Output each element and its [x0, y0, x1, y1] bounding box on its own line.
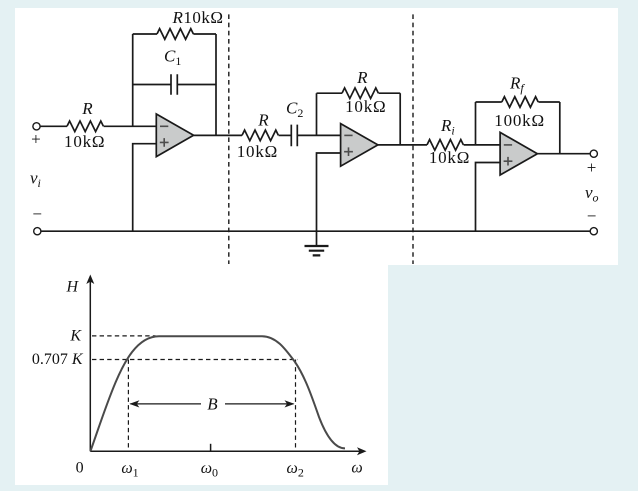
wire U3 feedback top left — [476, 101, 502, 103]
resistor Ri 10k — [427, 140, 463, 151]
wire Ri to op-amp U3 inverting input — [464, 144, 501, 146]
wire R to C2 — [279, 134, 292, 136]
capacitor C1 — [171, 74, 177, 94]
graph y-axis arrowhead — [86, 275, 94, 285]
svg-text:R10kΩ: R10kΩ — [172, 8, 224, 27]
wire U1 noninverting input — [133, 144, 157, 232]
ground — [305, 246, 329, 255]
node vi+ input terminal — [33, 123, 40, 130]
wire feedback top branch left — [133, 33, 157, 35]
op-amp U3 — [500, 132, 537, 175]
wire U3 feedback left vertical — [475, 102, 477, 145]
node vi- terminal — [34, 228, 41, 235]
graph dashed omega1 vertical — [127, 360, 129, 452]
node vo- terminal — [590, 228, 597, 235]
resistor R (input, 10k) — [67, 121, 103, 132]
svg-text:−: − — [587, 206, 597, 225]
graph: frequency response — [90, 280, 361, 451]
wire U3 output to vo terminal — [537, 153, 590, 155]
graph y-axis — [89, 280, 91, 451]
wire U2 noninverting input — [317, 153, 341, 246]
wire input terminal to R — [40, 125, 67, 127]
graph dashed omega2 vertical — [295, 360, 297, 452]
svg-text:10kΩ: 10kΩ — [64, 132, 105, 151]
svg-text:−: − — [32, 205, 42, 224]
wire feedback top branch right — [193, 33, 216, 35]
svg-text:0.707 K: 0.707 K — [32, 351, 84, 368]
wire C1 branch right — [177, 84, 216, 86]
svg-text:K: K — [69, 327, 82, 344]
svg-text:+: + — [31, 129, 41, 148]
graph response curve — [91, 336, 346, 451]
resistor Rf 100k (U3 feedback) — [502, 97, 538, 108]
wire U2 feedback top left — [317, 92, 343, 94]
bandwidth B arrow left — [130, 403, 201, 405]
stage separator dashed line 1 — [228, 14, 230, 264]
U1 plus pin mark — [160, 138, 169, 147]
wire U3 feedback top right — [538, 101, 559, 103]
svg-text:10kΩ: 10kΩ — [237, 142, 278, 161]
graph omega0 tick — [210, 444, 212, 452]
bandwidth B arrow right — [225, 403, 294, 405]
U3 minus pin mark — [504, 144, 512, 146]
svg-text:10kΩ: 10kΩ — [345, 97, 386, 116]
wire U1 feedback right vertical — [215, 34, 217, 135]
wire U3 feedback right vertical — [559, 102, 561, 154]
graph dashed level 0.707K — [92, 359, 298, 361]
wire C2 to op-amp U2 inverting input — [297, 134, 340, 136]
wire U1 output to stage 2 — [194, 134, 242, 136]
capacitor C2 — [291, 125, 297, 147]
svg-text:ω: ω — [351, 460, 362, 477]
graph x-axis — [90, 450, 361, 452]
wire bottom rail — [41, 230, 590, 232]
svg-text:H: H — [66, 279, 80, 296]
resistor R (stage 2 input, 10k) — [242, 130, 278, 141]
resistor R 10k (U1 feedback) — [157, 29, 193, 40]
svg-text:B: B — [207, 394, 218, 413]
wire U2 feedback right vertical — [399, 93, 401, 145]
wire U1 feedback left vertical — [132, 34, 134, 126]
wire R to op-amp U1 inverting input — [104, 125, 157, 127]
U2 minus pin mark — [344, 134, 352, 136]
wire C1 branch left — [133, 84, 171, 86]
svg-text:R: R — [356, 68, 368, 87]
svg-text:R: R — [257, 110, 269, 129]
wire U2 feedback top right — [379, 92, 401, 94]
wire U2 output to stage 3 — [378, 144, 427, 146]
wire U3 noninverting input — [476, 163, 501, 232]
svg-text:R: R — [81, 99, 93, 118]
svg-text:0: 0 — [76, 460, 84, 477]
resistor R 10k (U2 feedback) — [342, 88, 378, 99]
U1 minus pin mark — [160, 125, 168, 127]
svg-text:10kΩ: 10kΩ — [429, 148, 470, 167]
graph x-axis arrowhead — [357, 447, 367, 455]
wire U2 feedback left vertical — [316, 93, 318, 135]
op-amp U2 — [341, 124, 378, 167]
U3 plus pin mark — [504, 157, 513, 166]
stage separator dashed line 2 — [412, 14, 414, 264]
svg-text:100kΩ: 100kΩ — [494, 111, 545, 130]
U2 plus pin mark — [344, 147, 353, 156]
svg-text:+: + — [587, 158, 597, 177]
graph dashed level K — [92, 335, 156, 337]
node vo+ output terminal — [590, 150, 597, 157]
op-amp U1 — [156, 114, 193, 157]
